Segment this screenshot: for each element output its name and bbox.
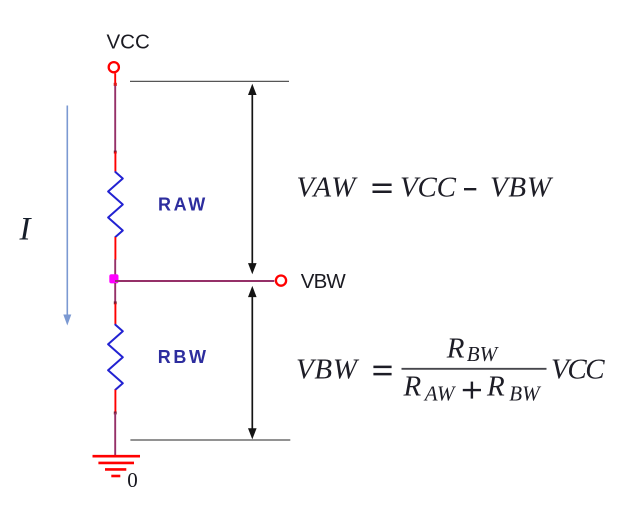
equation VBW = RBW/(RAW+RBW) * VCC bbox=[296, 332, 605, 405]
fraction bar bbox=[402, 368, 547, 370]
svg-text:R: R bbox=[403, 370, 422, 402]
terminal VCC bbox=[109, 62, 119, 72]
svg-text:I: I bbox=[19, 212, 33, 248]
ground bbox=[93, 456, 141, 476]
svg-text:BW: BW bbox=[467, 342, 500, 366]
wire VCC pin stub bbox=[114, 73, 116, 86]
svg-text:VBW: VBW bbox=[301, 270, 347, 293]
svg-text:VAW: VAW bbox=[297, 172, 359, 204]
resistor RBW bbox=[108, 304, 123, 414]
wire VBW horizontal bbox=[115, 280, 274, 282]
svg-text:VCC: VCC bbox=[551, 353, 605, 385]
dimension arrow VBW span bbox=[248, 286, 257, 440]
resistor RAW bbox=[108, 152, 123, 260]
wire upper vertical bbox=[114, 86, 116, 153]
svg-text:R: R bbox=[446, 332, 465, 364]
terminal VBW bbox=[276, 276, 286, 286]
node VBW junction bbox=[109, 274, 118, 283]
equation VAW = VCC - VBW bbox=[297, 172, 554, 204]
svg-text:VCC: VCC bbox=[107, 31, 150, 54]
svg-text:AW: AW bbox=[423, 382, 457, 406]
current arrow I bbox=[63, 106, 71, 326]
svg-text:BW: BW bbox=[509, 382, 542, 406]
dimension arrow VAW span bbox=[248, 84, 257, 274]
top rail reference line bbox=[130, 80, 289, 82]
wire mid vertical (node to RBW) bbox=[114, 283, 116, 303]
svg-text:RAW: RAW bbox=[158, 195, 208, 215]
junction dot (wire/RBW pin) bbox=[114, 301, 117, 304]
svg-text:VCC: VCC bbox=[400, 172, 457, 204]
svg-text:RBW: RBW bbox=[158, 347, 209, 367]
wire lower vertical (to ground) bbox=[114, 413, 116, 456]
svg-text:VBW: VBW bbox=[296, 354, 360, 386]
bottom rail reference line bbox=[130, 439, 290, 441]
svg-text:VBW: VBW bbox=[490, 172, 554, 204]
junction dot (RBW pin/wire) bbox=[114, 412, 117, 415]
svg-text:R: R bbox=[486, 370, 505, 402]
svg-text:0: 0 bbox=[127, 468, 138, 492]
junction dot (pin/wire) bbox=[114, 83, 117, 86]
junction dot (wire/RAW pin) bbox=[114, 151, 117, 154]
wire mid vertical (RAW to node) bbox=[114, 259, 116, 279]
